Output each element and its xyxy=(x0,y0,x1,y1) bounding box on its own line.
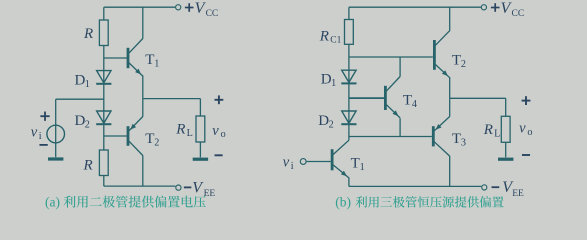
svg-text:(a): (a) xyxy=(45,195,60,210)
svg-text:4: 4 xyxy=(412,99,417,110)
svg-text:R: R xyxy=(175,122,185,138)
svg-text:L: L xyxy=(187,128,193,139)
svg-text:i: i xyxy=(39,131,42,142)
svg-text:EE: EE xyxy=(204,189,216,199)
svg-text:CC: CC xyxy=(206,9,219,19)
svg-text:2: 2 xyxy=(154,138,159,149)
svg-text:R: R xyxy=(83,26,93,42)
svg-text:2: 2 xyxy=(461,59,466,70)
svg-text:T: T xyxy=(452,131,461,147)
svg-text:L: L xyxy=(494,129,500,140)
svg-text:v: v xyxy=(283,154,290,170)
svg-text:v: v xyxy=(519,121,526,137)
svg-text:1: 1 xyxy=(360,162,365,173)
svg-text:1: 1 xyxy=(154,58,159,69)
svg-text:R: R xyxy=(319,29,329,45)
svg-text:o: o xyxy=(527,127,532,138)
svg-text:v: v xyxy=(31,125,38,141)
svg-text:T: T xyxy=(145,52,154,68)
svg-text:1: 1 xyxy=(85,79,90,90)
svg-text:R: R xyxy=(483,122,493,138)
svg-text:1: 1 xyxy=(331,78,336,89)
svg-text:EE: EE xyxy=(512,189,524,199)
svg-text:i: i xyxy=(291,161,294,172)
svg-text:CC: CC xyxy=(512,9,525,19)
svg-text:T: T xyxy=(351,155,360,171)
svg-text:C1: C1 xyxy=(330,36,341,46)
svg-text:T: T xyxy=(452,52,461,68)
svg-text:2: 2 xyxy=(85,119,90,130)
svg-text:(b): (b) xyxy=(335,195,351,210)
svg-text:v: v xyxy=(212,123,219,139)
svg-text:3: 3 xyxy=(461,137,466,148)
svg-text:o: o xyxy=(221,129,226,140)
svg-text:T: T xyxy=(403,92,412,108)
svg-text:2: 2 xyxy=(329,119,334,130)
svg-text:T: T xyxy=(145,131,154,147)
svg-text:R: R xyxy=(83,158,93,174)
